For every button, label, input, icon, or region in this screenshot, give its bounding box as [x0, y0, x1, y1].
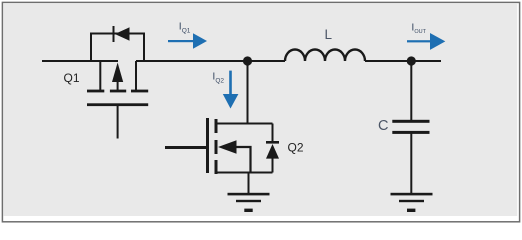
wire: inductor to output node: [365, 60, 411, 62]
transistor Q1 gate bar: [87, 103, 148, 106]
wire: body diode loop of Q1: [91, 34, 144, 62]
transistor Q1 body arrow: [112, 63, 123, 83]
transistor Q1 channel left dash: [87, 90, 104, 93]
wire: Q2 drain line and diode loop top: [218, 123, 273, 125]
wire: node SW to Q2 drain: [247, 61, 249, 124]
transistor Q1 channel right dash: [131, 90, 148, 93]
transistor Q2 body arrow: [218, 140, 237, 153]
capacitor C top plate: [392, 120, 429, 123]
inductor L winding: [285, 50, 365, 62]
transistor Q2 channel middle dash: [215, 140, 218, 154]
svg-text:Q2: Q2: [288, 140, 304, 154]
svg-text:C: C: [378, 118, 388, 134]
ground below C bar2: [399, 200, 424, 202]
ground below C bar1: [391, 193, 433, 196]
wire: output node down to capacitor: [410, 61, 412, 120]
wire: Q1 source contact: [99, 61, 101, 90]
transistor Q1 body diode bar: [113, 26, 115, 42]
transistor Q2 channel top dash: [215, 119, 218, 133]
wire: Q1 right segment to node SW: [136, 60, 248, 62]
wire: Q1 gate lead: [117, 106, 119, 139]
ground below Q2 bar2: [236, 200, 261, 202]
wire: diode D2 lower leg: [272, 157, 274, 173]
current arrow IQ2: [229, 71, 232, 94]
transistor Q2 gate bar: [206, 118, 209, 173]
current arrow IQ1: [168, 40, 193, 42]
wire: Q1 drain contact: [135, 61, 137, 90]
transistor Q1 channel middle dash: [110, 90, 126, 93]
node SW junction dot: [243, 56, 252, 65]
transistor Q2 channel bottom dash: [215, 160, 218, 174]
ground below Q2 bar1: [228, 193, 270, 196]
ground below C bar3: [407, 209, 415, 212]
transistor Q1 body diode triangle: [115, 27, 130, 40]
current arrow IOUT: [407, 40, 430, 42]
wire: Q2 source to ground: [248, 173, 250, 194]
wire: output stub: [411, 60, 441, 62]
wire: node SW to inductor: [248, 60, 285, 62]
node VOUT junction dot: [407, 56, 416, 65]
wire: Q2 body connection: [235, 147, 251, 173]
diode D2 cathode bar: [266, 141, 279, 144]
wire: Q2 gate lead: [165, 146, 206, 149]
wire: diode D2 upper leg: [272, 124, 274, 142]
svg-text:L: L: [325, 27, 333, 42]
wire: input to Q1 left segment: [42, 60, 118, 62]
diode D2 triangle: [266, 144, 279, 159]
svg-text:Q1: Q1: [64, 71, 80, 85]
wire: Q2 source line and diode loop bottom: [218, 172, 273, 174]
wire: Q1 body arrow stem: [117, 80, 119, 91]
capacitor C bottom plate: [392, 131, 429, 134]
wire: capacitor to ground: [410, 134, 412, 194]
ground below Q2 bar3: [244, 209, 252, 212]
